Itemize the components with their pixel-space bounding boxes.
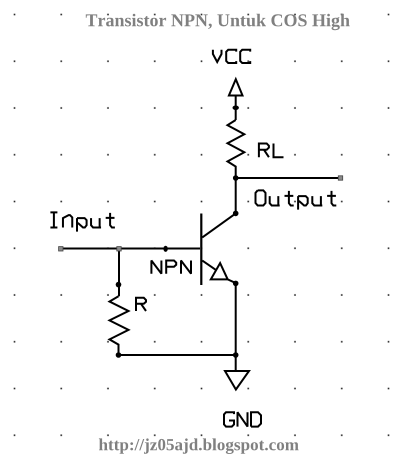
power symbol VCC (up arrow) <box>229 79 243 120</box>
wire: input net <box>62 248 200 250</box>
junction below VCC arrow <box>233 106 239 111</box>
junction dots <box>116 106 239 358</box>
junction on base wire <box>163 246 167 252</box>
transistor NPN collector lead <box>202 213 235 237</box>
resistor R <box>110 296 129 355</box>
junction RL/output <box>233 175 239 181</box>
wire: collector riser <box>235 178 237 213</box>
terminal square: output end <box>338 176 342 180</box>
resistor RL <box>228 120 245 178</box>
wire: output net <box>236 177 339 179</box>
footer url text <box>99 438 299 454</box>
junction ground rail <box>233 352 239 358</box>
title text <box>86 14 350 31</box>
transistor NPN base bar <box>200 214 202 286</box>
label R <box>136 298 146 311</box>
wire: bottom rail <box>119 354 236 356</box>
label Input <box>50 212 115 231</box>
label RL <box>259 143 284 157</box>
junction R top <box>116 282 122 288</box>
junction emitter end <box>233 281 239 287</box>
label GND <box>224 412 261 426</box>
terminal square: R branch junction <box>117 247 121 251</box>
wire: emitter to ground rail <box>235 283 237 355</box>
transistor NPN emitter lead (with arrow) <box>202 261 236 284</box>
junction R bottom <box>116 352 122 358</box>
terminal square: input end <box>59 247 63 251</box>
label VCC <box>213 50 250 63</box>
wire: R branch <box>118 249 120 297</box>
label NPN <box>151 261 191 274</box>
junction collector bend <box>233 211 239 217</box>
label Output <box>256 190 337 209</box>
ground symbol GND <box>225 355 249 390</box>
